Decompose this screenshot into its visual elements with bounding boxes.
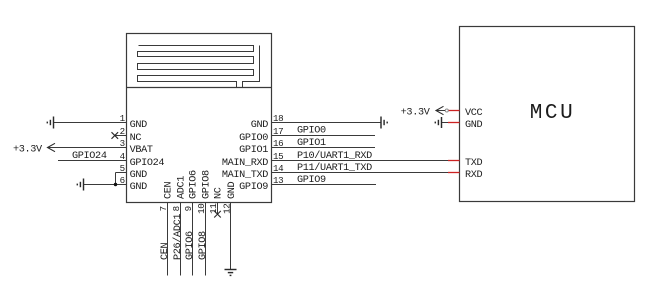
pin 12 GND (module bottom) [222,181,239,213]
ground symbol at pin 18 [381,117,387,129]
junction dot pins 5/6 [114,183,117,186]
svg-text:GPIO9: GPIO9 [239,182,268,193]
svg-text:5: 5 [120,163,125,174]
PCB antenna meander [138,46,260,88]
wire pin10 down [205,203,207,276]
wire pin6 to ground [84,184,127,186]
wire GND to ground [442,122,449,124]
svg-text:GPIO9: GPIO9 [297,175,326,186]
svg-text:GPIO6: GPIO6 [189,170,200,199]
wire pin12 to ground [230,203,232,270]
pin 16 GPIO1 (module right) [239,138,283,156]
svg-text:2: 2 [120,126,125,137]
wire VCC to +3.3V [436,110,445,112]
wire pin4 GPIO24 [58,160,127,162]
svg-text:GND: GND [465,120,483,131]
+3.3V power arrow (module) [13,143,55,155]
MCU pin TXD [448,158,483,169]
pin 18 GND (module right) [251,113,284,131]
pin 6 GND (module left) [120,175,147,193]
svg-text:GPIO0: GPIO0 [239,133,268,144]
pin 11 NC (module bottom) [208,187,225,214]
pin 17 GPIO0 (module right) [239,126,283,144]
svg-text:GPIO6: GPIO6 [185,231,196,260]
MCU pin RXD [448,170,483,181]
pin 14 MAIN_TXD (module right) [222,163,284,181]
ground symbol at pin 6 [77,179,83,191]
svg-text:VCC: VCC [465,108,483,119]
ground symbol at MCU GND [435,117,441,128]
svg-text:GPIO24: GPIO24 [130,158,165,169]
pin 3 VBAT (module left) [120,138,153,156]
svg-text:CEN: CEN [160,242,171,260]
MCU pin VCC [448,108,483,119]
svg-text:GND: GND [130,182,148,193]
pin 13 GPIO9 (module right) [239,175,283,193]
svg-text:NC: NC [214,187,225,199]
wire pin1 to ground [54,122,127,124]
svg-text:+3.3V: +3.3V [401,108,431,119]
wire pin9 down [192,203,194,276]
svg-text:MAIN_TXD: MAIN_TXD [222,170,268,181]
module body box [127,34,272,203]
svg-text:GPIO1: GPIO1 [239,145,268,156]
wire pin16 GPIO1 [272,147,376,149]
pin 7 CEN (module bottom) [158,181,175,211]
pin 15 MAIN_RXD (module right) [222,151,283,169]
MCU box [460,27,635,202]
svg-text:MCU: MCU [530,102,576,125]
svg-text:GPIO0: GPIO0 [297,126,326,137]
pin 9 GPIO6 (module bottom) [183,170,200,211]
wire pin15 to MCU TXD [272,160,449,162]
svg-text:P26/ADC1: P26/ADC1 [172,214,184,260]
pin 8 ADC1 (module bottom) [171,176,188,212]
svg-text:GPIO8: GPIO8 [198,231,209,260]
wire pin8 down [180,203,182,276]
ground symbol at pin 12 [225,270,237,276]
pin 1 GND (module left) [120,113,147,131]
svg-text:+3.3V: +3.3V [13,145,43,156]
no-connect X pin 2 [112,132,119,139]
svg-text:P10/UART1_RXD: P10/UART1_RXD [297,150,372,162]
wire pin3 to +3.3V [48,147,127,149]
wire pin13 GPIO9 [272,184,377,186]
svg-text:GND: GND [130,120,148,131]
svg-text:P11/UART1_TXD: P11/UART1_TXD [297,162,372,174]
+3.3V power arrow (MCU) [401,106,444,118]
svg-text:RXD: RXD [465,170,483,181]
svg-text:CEN: CEN [164,181,175,199]
svg-text:MAIN_RXD: MAIN_RXD [222,158,268,169]
svg-text:GND: GND [227,181,238,199]
wire pin5 down to pin6 [115,173,117,185]
pin 5 GND (module left) [116,163,148,181]
no-connect X pin 11 [214,211,221,218]
ground symbol at pin 1 [47,117,53,129]
pin 4 GPIO24 (module left) [120,151,165,169]
svg-text:GND: GND [251,120,269,131]
wire pin17 GPIO0 [272,135,376,137]
svg-text:GND: GND [130,170,148,181]
svg-text:GPIO8: GPIO8 [202,170,213,199]
wire pin7 CEN down [167,203,169,276]
wire pin14 to MCU RXD [272,172,449,174]
svg-text:TXD: TXD [465,158,483,169]
wire pin18 to ground [272,122,382,124]
svg-text:VBAT: VBAT [130,145,153,156]
svg-text:NC: NC [130,133,142,144]
svg-text:GPIO1: GPIO1 [297,138,326,149]
pin 2 NC (module left) [115,126,142,144]
pin end circle VCC [445,109,448,112]
svg-text:11: 11 [208,203,219,214]
MCU pin GND [448,120,483,131]
pin 10 GPIO8 (module bottom) [196,170,213,214]
svg-text:GPIO24: GPIO24 [72,151,107,162]
svg-text:ADC1: ADC1 [177,176,188,199]
